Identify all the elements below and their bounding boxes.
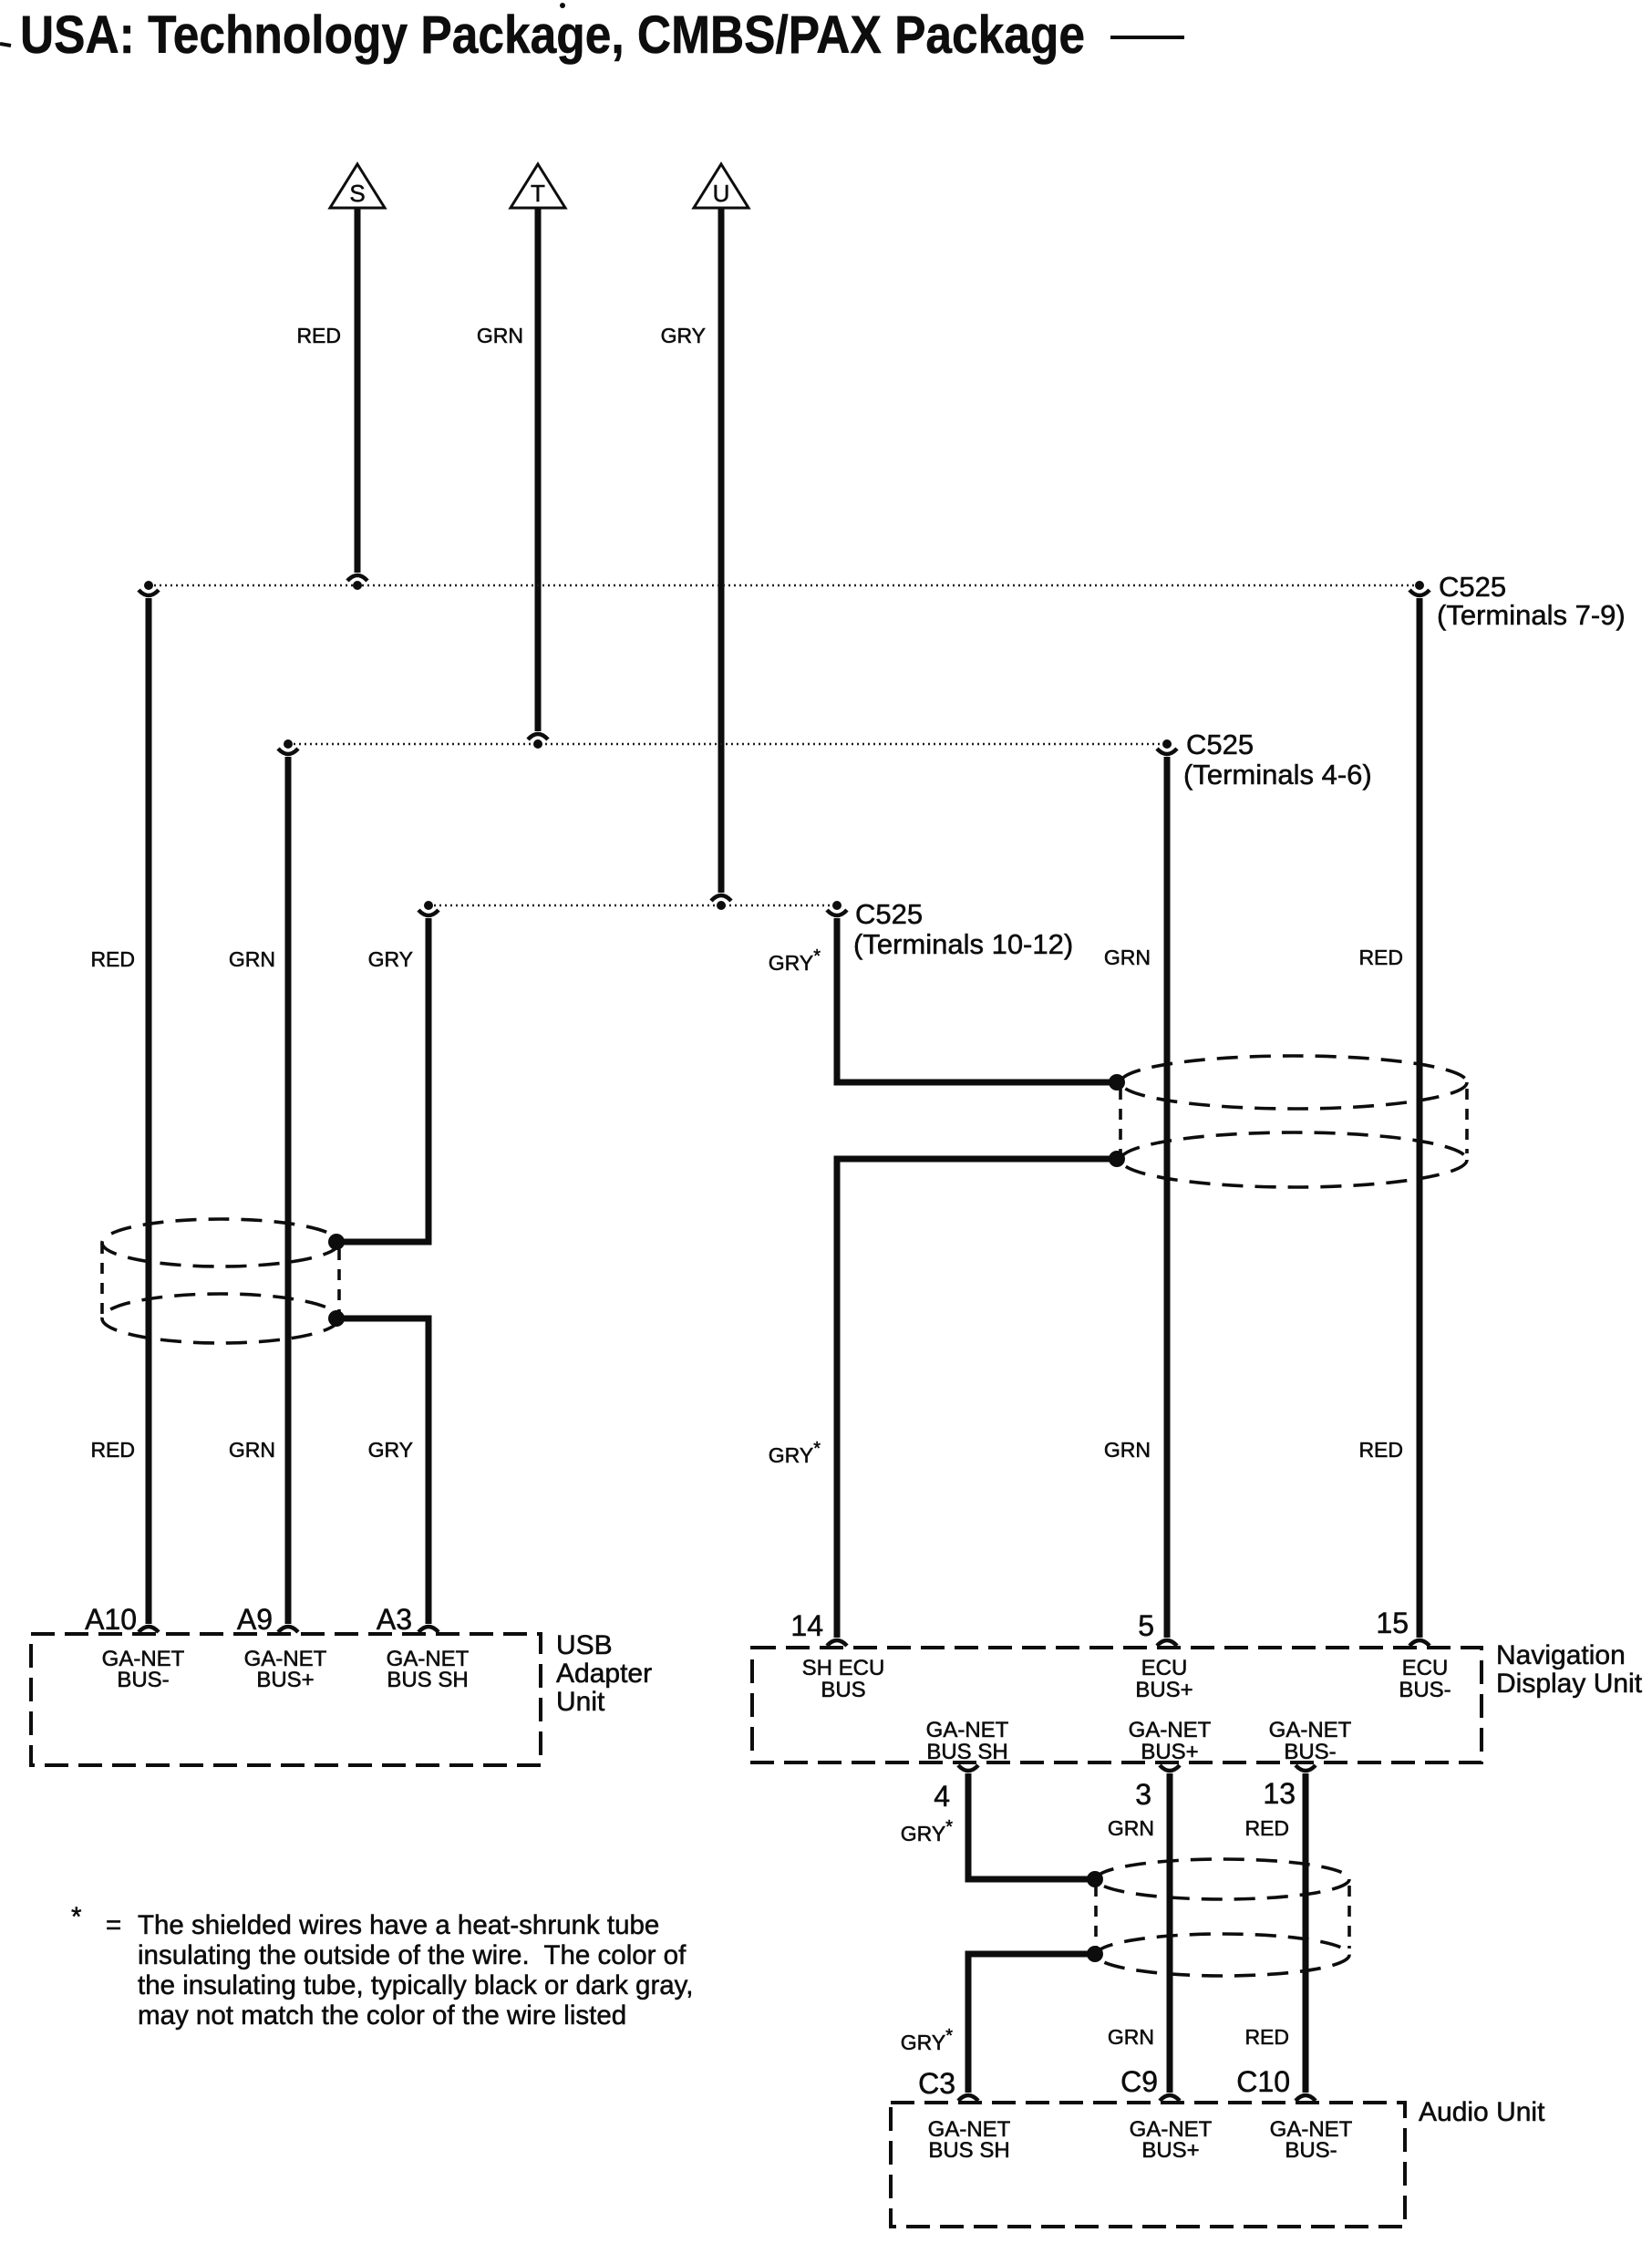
svg-text:GRY*: GRY* <box>901 1817 953 1845</box>
svg-text:GRN: GRN <box>1108 1816 1154 1840</box>
svg-text:RED: RED <box>1358 946 1403 969</box>
svg-text:(Terminals 4-6): (Terminals 4-6) <box>1183 759 1372 791</box>
svg-text:RED: RED <box>1244 2025 1289 2049</box>
pin C9 <box>1120 2065 1213 2163</box>
wire GRY* right lower segment to pin 14 <box>769 1159 1110 1638</box>
svg-text:GRY: GRY <box>661 324 706 347</box>
svg-text:C9: C9 <box>1120 2065 1158 2098</box>
shield heat-shrink tube right upper <box>1120 1056 1467 1187</box>
svg-text:BUS+: BUS+ <box>1141 2138 1199 2163</box>
svg-text:GRN: GRN <box>477 324 523 347</box>
svg-text:C525: C525 <box>855 898 923 930</box>
svg-text:BUS SH: BUS SH <box>928 2138 1009 2163</box>
svg-text:SH ECU: SH ECU <box>802 1656 885 1680</box>
svg-text:BUS-: BUS- <box>1399 1678 1451 1702</box>
svg-text:Audio Unit: Audio Unit <box>1419 2097 1545 2127</box>
svg-text:S: S <box>349 180 365 207</box>
svg-text:BUS+: BUS+ <box>1135 1678 1193 1702</box>
svg-text:C3: C3 <box>918 2067 955 2100</box>
svg-text:A3: A3 <box>377 1603 412 1636</box>
junction lower shield bottom <box>1087 1946 1103 1962</box>
svg-text:GA-NET: GA-NET <box>1269 1718 1352 1742</box>
svg-text:13: 13 <box>1263 1777 1296 1810</box>
svg-text:A10: A10 <box>85 1603 137 1636</box>
svg-text:ECU: ECU <box>1141 1656 1188 1680</box>
svg-text:BUS: BUS <box>821 1678 865 1702</box>
svg-text:C525: C525 <box>1439 571 1506 603</box>
wire GRN right to pin 5 <box>1104 757 1167 1638</box>
svg-text:5: 5 <box>1138 1609 1154 1642</box>
svg-text:*: * <box>71 1902 82 1932</box>
svg-text:RED: RED <box>296 324 341 347</box>
svg-text:GRY*: GRY* <box>901 2026 953 2054</box>
svg-text:BUS-: BUS- <box>117 1668 169 1692</box>
terminal left GRN at C525 4-6 <box>278 739 298 754</box>
svg-text:insulating the outside of the: insulating the outside of the wire. The … <box>138 1940 687 1970</box>
connector triangle U <box>694 164 749 208</box>
title <box>0 3 1184 65</box>
junction right shield bottom <box>1109 1151 1125 1167</box>
wire S (RED) <box>296 208 357 573</box>
svg-text:Adapter: Adapter <box>556 1659 652 1689</box>
wire GRN left to pin A9 <box>229 757 288 1624</box>
svg-text:GRY*: GRY* <box>769 1439 821 1467</box>
pin 4 <box>934 1765 978 1813</box>
pin 15 <box>1376 1607 1451 1702</box>
wire GRN pin3 to pin C9 <box>1108 1773 1170 2093</box>
svg-text:GRY: GRY <box>368 947 413 971</box>
svg-text:BUS SH: BUS SH <box>387 1668 468 1692</box>
svg-text:may not match the color of the: may not match the color of the wire list… <box>138 2000 626 2031</box>
junction right shield top <box>1109 1074 1125 1090</box>
svg-text:BUS+: BUS+ <box>1141 1740 1198 1764</box>
terminal T at C525 4-6 <box>528 734 548 749</box>
navigation display unit box <box>752 1640 1643 1762</box>
svg-text:USB: USB <box>556 1630 613 1660</box>
svg-text:GRN: GRN <box>1104 946 1151 969</box>
svg-text:BUS-: BUS- <box>1285 2138 1337 2163</box>
svg-text:RED: RED <box>1358 1438 1403 1462</box>
pin C3 <box>918 2067 1011 2163</box>
shield heat-shrink tube left <box>102 1219 339 1343</box>
svg-text:GRY: GRY <box>368 1438 413 1462</box>
wire RED right to pin 15 <box>1358 598 1420 1638</box>
pin A10 <box>85 1603 185 1692</box>
terminal right GRN at C525 4-6 <box>1157 739 1177 754</box>
pin 13 <box>1263 1765 1316 1810</box>
svg-text:3: 3 <box>1135 1778 1151 1811</box>
svg-text:RED: RED <box>1244 1816 1289 1840</box>
svg-text:GRN: GRN <box>229 947 275 971</box>
connector triangle T <box>511 164 565 208</box>
svg-text:C525: C525 <box>1186 729 1254 760</box>
junction left shield bottom <box>328 1310 345 1327</box>
terminal right GRY* at C525 10-12 <box>827 901 847 915</box>
svg-text:GRN: GRN <box>1108 2025 1154 2049</box>
pin 3 <box>1135 1765 1180 1811</box>
wire GRY* right upper segment into shield <box>769 918 1110 1082</box>
USB adapter unit box <box>31 1630 652 1765</box>
svg-text:BUS-: BUS- <box>1284 1740 1336 1764</box>
svg-text:GRY*: GRY* <box>769 946 821 975</box>
svg-text:BUS SH: BUS SH <box>926 1740 1007 1764</box>
footnote <box>71 1902 693 2031</box>
svg-text:GRN: GRN <box>229 1438 275 1462</box>
svg-text:C10: C10 <box>1236 2065 1290 2098</box>
svg-text:Display Unit: Display Unit <box>1496 1669 1643 1699</box>
svg-text:the insulating tube, typically: the insulating tube, typically black or … <box>138 1970 693 2000</box>
junction lower shield top <box>1087 1871 1103 1887</box>
terminal left RED at C525 7-9 <box>139 581 159 595</box>
junction left shield top <box>328 1234 345 1250</box>
terminal right RED at C525 7-9 <box>1409 581 1430 595</box>
svg-text:GA-NET: GA-NET <box>1129 1718 1212 1742</box>
connector C525 terminals 4-6 dotted line <box>288 729 1372 791</box>
svg-text:4: 4 <box>934 1780 950 1813</box>
wire GRY* pin4 upper segment into lower shield <box>901 1773 1089 1879</box>
svg-text:ECU: ECU <box>1402 1656 1449 1680</box>
wire GRY left upper segment into shield <box>339 918 428 1242</box>
svg-text:RED: RED <box>90 1438 135 1462</box>
terminal U at C525 10-12 <box>711 895 731 910</box>
pin A9 <box>237 1603 327 1692</box>
svg-text:A9: A9 <box>237 1603 273 1636</box>
svg-text:GRN: GRN <box>1104 1438 1151 1462</box>
pin C10 <box>1236 2065 1352 2163</box>
wire RED left to pin A10 <box>90 598 149 1624</box>
wire GRY left lower segment to pin A3 <box>339 1318 428 1624</box>
svg-text:U: U <box>713 180 730 207</box>
svg-text:Unit: Unit <box>556 1687 605 1717</box>
wire T (GRN) <box>477 208 538 731</box>
shield heat-shrink tube lower <box>1096 1859 1349 1976</box>
navigation lower pin labels <box>926 1718 1352 1764</box>
svg-text:BUS+: BUS+ <box>256 1668 314 1692</box>
audio unit box <box>891 2097 1545 2227</box>
svg-text:(Terminals 10-12): (Terminals 10-12) <box>853 928 1073 960</box>
svg-text:15: 15 <box>1376 1607 1409 1639</box>
svg-text:RED: RED <box>90 947 135 971</box>
svg-text:(Terminals 7-9): (Terminals 7-9) <box>1437 599 1626 631</box>
svg-text:USA: Technology Package, CMBS/: USA: Technology Package, CMBS/PAX Packag… <box>20 5 1085 65</box>
pin 14 <box>790 1609 884 1702</box>
wire RED pin13 to pin C10 <box>1244 1773 1306 2093</box>
svg-text:Navigation: Navigation <box>1496 1640 1626 1670</box>
connector triangle S <box>330 164 385 208</box>
connector C525 terminals 10-12 dotted line <box>428 898 1073 960</box>
svg-text:The shielded wires have a heat: The shielded wires have a heat-shrunk tu… <box>138 1910 659 1940</box>
svg-text:T: T <box>531 180 545 207</box>
wire U (GRY) <box>661 208 721 893</box>
svg-text:14: 14 <box>790 1609 823 1642</box>
terminal left GRY at C525 10-12 <box>418 901 439 915</box>
terminal S at C525 7-9 <box>347 575 367 590</box>
pin A3 <box>377 1603 470 1692</box>
connector C525 terminals 7-9 dotted line <box>149 571 1626 631</box>
wire GRY* lower segment to pin C3 <box>901 1954 1089 2093</box>
svg-text:GA-NET: GA-NET <box>926 1718 1009 1742</box>
svg-text:=: = <box>106 1910 121 1940</box>
pin 5 <box>1135 1609 1193 1702</box>
